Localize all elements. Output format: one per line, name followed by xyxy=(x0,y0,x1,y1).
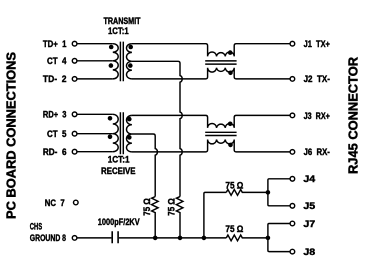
junction dot J7 J8 branch xyxy=(266,236,271,241)
terminal pin 3 xyxy=(72,112,77,117)
T1 primary dot bottom xyxy=(109,63,114,68)
terminal pin 8 chassis ground xyxy=(72,236,77,241)
terminal J6 xyxy=(290,150,295,155)
capacitor C1 1000pF plates xyxy=(112,231,118,243)
choke L1 top winding with wires to T1 and J1 xyxy=(132,44,290,57)
junction dot J4 J5 branch xyxy=(266,190,271,195)
resistor R1 75 ohm vertical xyxy=(152,197,159,238)
terminal pin 2 xyxy=(72,77,77,82)
choke L2 bottom winding with wires to T2 and J6 xyxy=(132,140,290,152)
svg-text:75 Ω: 75 Ω xyxy=(225,180,243,190)
terminal J5 xyxy=(290,204,295,209)
transformer T2 RECEIVE secondary winding xyxy=(127,115,132,151)
wire RD- pin 6 to transformer xyxy=(77,151,113,153)
svg-text:75 Ω: 75 Ω xyxy=(142,198,152,216)
resistor R2 75 ohm vertical xyxy=(176,197,183,238)
transformer T1 TRANSMIT secondary winding xyxy=(127,44,132,79)
terminal J7 xyxy=(290,221,295,226)
svg-text:RD- 6: RD- 6 xyxy=(43,147,67,157)
resistor R4 75 ohm horizontal xyxy=(226,190,268,196)
resistor R3 75 ohm horizontal in bus xyxy=(226,235,268,241)
T2 primary dot bottom xyxy=(108,135,113,140)
wire T2 center tap down to resistor R1 with hop xyxy=(132,134,157,197)
svg-text:CHS: CHS xyxy=(30,221,42,231)
L2 dot bottom xyxy=(228,143,233,148)
choke L2 core xyxy=(205,132,236,135)
terminal pin 4 xyxy=(72,59,77,64)
wire junction to J8 xyxy=(268,238,290,252)
terminal pin 5 xyxy=(72,131,77,136)
T1 secondary dot bottom xyxy=(128,63,133,68)
svg-text:NC 7: NC 7 xyxy=(45,198,65,208)
svg-text:CT 4: CT 4 xyxy=(47,56,67,66)
L1 dot top xyxy=(228,50,233,55)
svg-text:J8: J8 xyxy=(303,247,315,257)
svg-text:1000pF/2KV: 1000pF/2KV xyxy=(98,217,140,227)
svg-text:J6 RX-: J6 RX- xyxy=(304,147,330,157)
svg-text:J1 TX+: J1 TX+ xyxy=(304,39,330,49)
svg-text:GROUND 8: GROUND 8 xyxy=(30,233,66,243)
T2 secondary dot bottom xyxy=(127,135,132,140)
transformer T2 RECEIVE primary winding xyxy=(113,114,118,151)
svg-text:1CT:1: 1CT:1 xyxy=(108,155,130,165)
wire junction to J7 xyxy=(268,224,290,238)
choke L1 core xyxy=(205,61,236,64)
choke L2 top winding with wires to T2 and J3 xyxy=(132,115,290,128)
wire ground pin 8 to capacitor xyxy=(77,237,111,239)
wire resistor R4 left leg down to bus xyxy=(204,192,226,238)
terminal J4 xyxy=(290,177,295,182)
transformer T1 core xyxy=(120,42,123,82)
ground bus wire capacitor to resistor R3 xyxy=(119,237,226,239)
junction dot R2 bus xyxy=(178,236,183,241)
L1 dot bottom xyxy=(228,71,233,76)
transformer T1 TRANSMIT primary winding xyxy=(113,44,118,79)
svg-text:75 Ω: 75 Ω xyxy=(225,224,243,234)
T2 primary dot top xyxy=(108,116,113,121)
wire CT pin 4 to transformer xyxy=(77,60,113,62)
wire TD- pin 2 to transformer xyxy=(77,78,113,80)
svg-text:TRANSMIT: TRANSMIT xyxy=(103,16,140,26)
wire junction to J5 xyxy=(268,192,290,205)
svg-text:J3 RX+: J3 RX+ xyxy=(304,111,330,121)
wire junction to J4 xyxy=(268,179,290,193)
svg-text:TD+ 1: TD+ 1 xyxy=(43,39,67,49)
svg-text:RD+ 3: RD+ 3 xyxy=(43,110,67,120)
svg-text:1CT:1: 1CT:1 xyxy=(108,26,129,36)
svg-text:RJ45 CONNECTOR: RJ45 CONNECTOR xyxy=(346,56,361,174)
svg-text:PC BOARD CONNECTIONS: PC BOARD CONNECTIONS xyxy=(3,52,18,219)
transformer T2 core xyxy=(120,112,123,154)
junction dot R1 bus xyxy=(153,236,158,241)
svg-text:J5: J5 xyxy=(303,201,315,211)
terminal J1 xyxy=(290,41,295,46)
terminal J2 xyxy=(290,77,295,82)
svg-text:J7: J7 xyxy=(303,219,315,229)
svg-text:TD- 2: TD- 2 xyxy=(43,74,67,84)
wire CT pin 5 to transformer xyxy=(77,133,113,135)
terminal pin 1 xyxy=(72,41,77,46)
terminal pin 7 NC xyxy=(74,200,79,205)
terminal J8 xyxy=(290,249,295,254)
svg-text:J4: J4 xyxy=(303,174,315,184)
T2 secondary dot top xyxy=(127,117,132,122)
wire T1 center tap down to resistor R2 with hops xyxy=(132,61,182,196)
terminal pin 6 xyxy=(72,149,77,154)
T1 primary dot top xyxy=(109,45,114,50)
svg-text:RECEIVE: RECEIVE xyxy=(101,166,136,176)
wire RD+ pin 3 to transformer xyxy=(77,113,113,115)
svg-text:75 Ω: 75 Ω xyxy=(166,198,176,216)
T1 secondary dot top xyxy=(128,45,133,50)
svg-text:J2 TX-: J2 TX- xyxy=(304,74,330,84)
wire TD+ pin 1 to transformer xyxy=(77,43,113,45)
junction dot R4 leg bus xyxy=(202,236,207,241)
choke L1 bottom winding with wires to T1 and J2 xyxy=(132,68,290,79)
svg-text:CT 5: CT 5 xyxy=(47,129,67,139)
terminal J3 xyxy=(290,113,295,118)
L2 dot top xyxy=(228,122,233,127)
